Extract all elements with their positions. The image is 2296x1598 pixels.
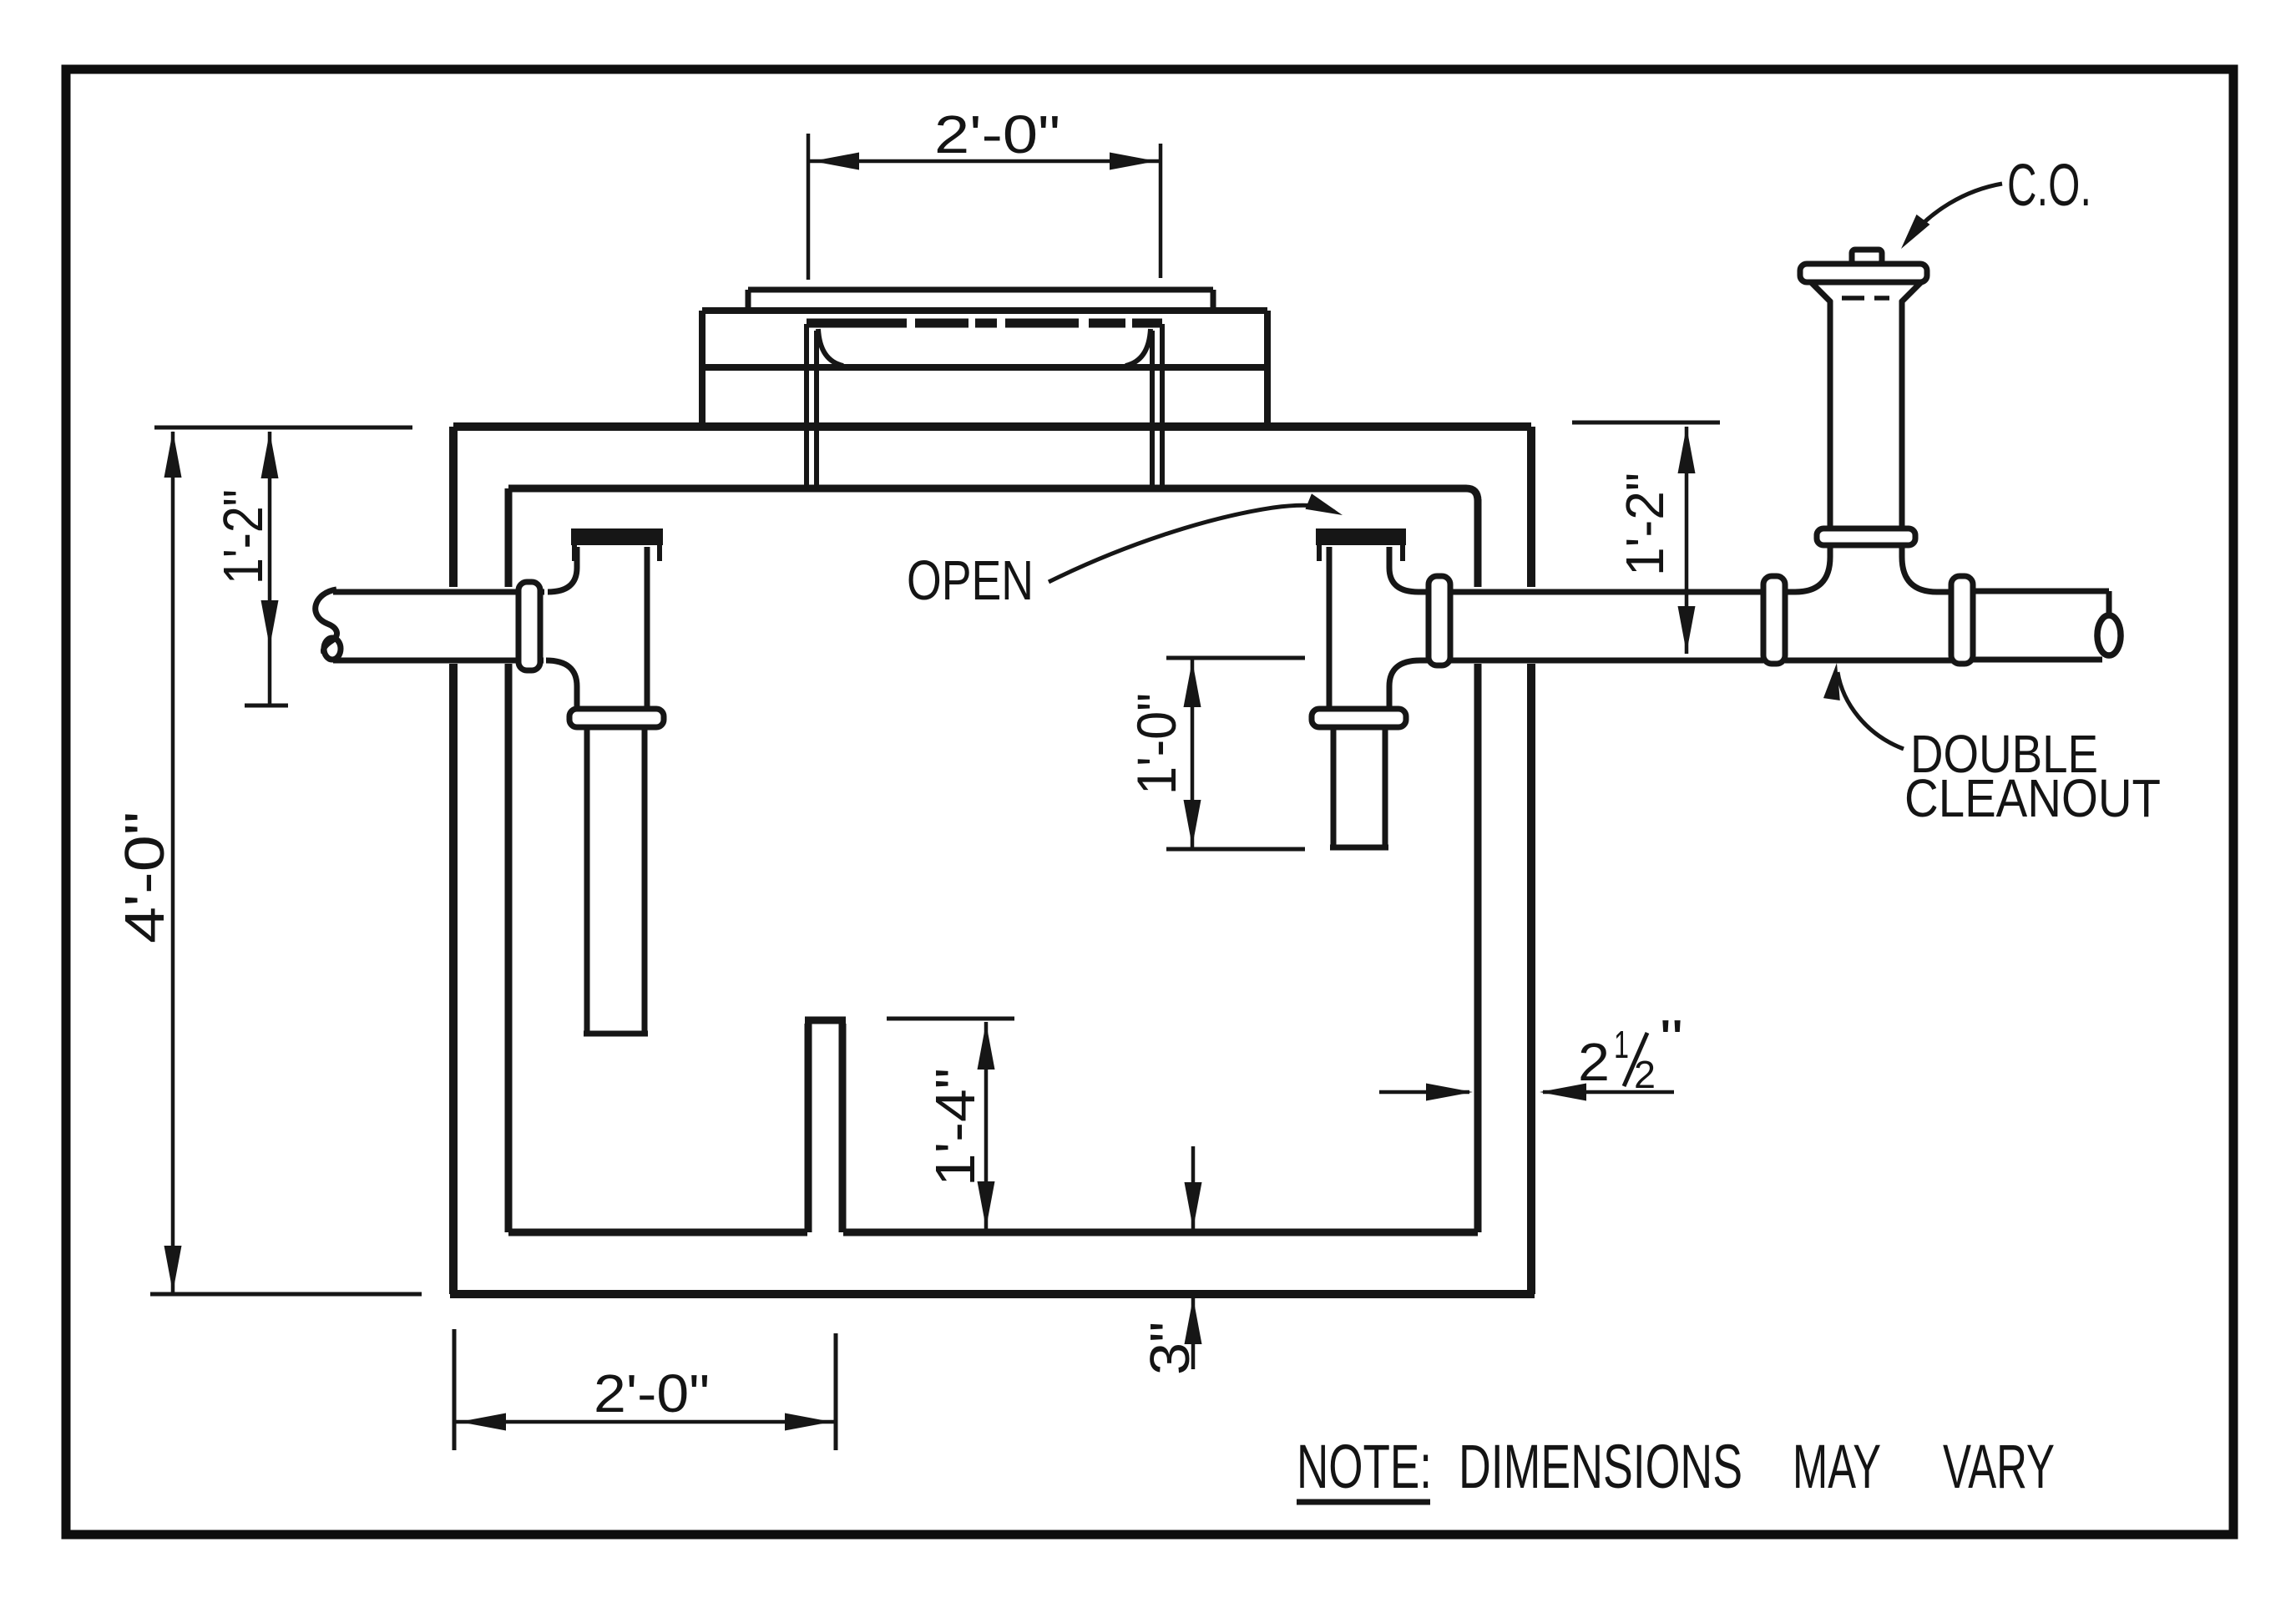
dimension 1'-4": arrowheads [978,1023,995,1070]
svg-text:NOTE:: NOTE: [1297,1432,1432,1501]
inlet tee lower coupling [569,709,664,727]
cleanout riser coupling [1817,528,1915,545]
dimension 1'-2" right: top tick [1572,421,1720,425]
svg-text:1'-2": 1'-2" [1615,473,1675,576]
inlet tee hub end ticks [574,545,660,561]
tank inner top wall [508,488,1478,501]
svg-text:1'-4": 1'-4" [924,1068,987,1186]
dimension 2'-0" bottom: extension lines [454,1329,836,1450]
outlet tee barrel and fillets [1329,547,1420,709]
cleanout right pipe collar [1951,576,1973,664]
inlet tee top hub [571,528,663,545]
dimension 1'-2" right: dimension line [1685,427,1689,654]
tank outer bottom wall [450,1290,1535,1298]
tank outer left wall [449,427,458,1294]
svg-text:C.O.: C.O. [2007,153,2091,219]
dimension 2'-0" top: arrowheads [812,153,859,170]
outlet pipe bottom edge [1420,658,1763,664]
inlet pipe break loop [324,638,341,660]
svg-text:OPEN: OPEN [907,549,1034,612]
dimension 1'-0": dimension line [1191,660,1195,847]
cleanout cap plate [1800,264,1927,282]
svg-text:": " [1660,1009,1683,1069]
dimension 3": lower arrow line [1191,1297,1196,1369]
svg-text:2: 2 [1634,1053,1656,1096]
baffle wall [805,1020,846,1232]
inlet pipe top edge [333,589,544,595]
dimension 2'-0" bottom: arrowheads [459,1413,506,1431]
svg-text:1'-2": 1'-2" [212,489,275,584]
inlet pipe bottom edge [333,658,544,664]
cleanout riser flare [1810,281,1922,302]
outlet tee hub end ticks [1319,545,1403,561]
svg-text:1: 1 [1614,1023,1629,1066]
tank inner bottom wall [508,1229,1478,1236]
manhole neck right [1152,324,1162,487]
lid slab mid line [702,364,1267,371]
tank inner right wall [1474,499,1482,1232]
svg-text:DIMENSIONS: DIMENSIONS [1459,1432,1742,1501]
leader DOUBLE CLEANOUT arrow [1838,672,1904,749]
manhole neck left [807,324,817,487]
svg-text:3": 3" [1139,1322,1201,1375]
tank inner left wall [505,488,513,1232]
tank outer top wall [453,422,1531,431]
inlet tee barrel and fillets [546,547,647,709]
cleanout left pipe collar [1763,576,1785,664]
svg-text:VARY: VARY [1943,1432,2055,1501]
dimension 1'-2" right: arrowheads [1678,427,1696,473]
dimension 1'-2" left: arrowheads [261,432,279,478]
tank outer right wall [1527,427,1535,1294]
dimension 1'-4": top tick [887,1017,1014,1021]
outlet tee lower coupling [1312,709,1406,727]
dimension 1'-2" left: top tick [154,426,412,430]
cleanout cap knob [1852,250,1882,264]
outfall pipe bottom edge [1973,657,2102,663]
dimension 3": upper arrow line [1191,1146,1196,1229]
lid slab [702,311,1267,424]
svg-text:4'-0": 4'-0" [114,812,176,943]
outlet down pipe bottom cap [1330,845,1388,851]
outfall pipe end curl [2106,591,2112,614]
dimension 1'-0": top tick [1166,656,1305,660]
outfall pipe top edge [1973,589,2109,594]
manhole cover corner fillets [818,329,1151,366]
dimension 1'-0": arrowheads [1184,660,1201,707]
dimension 2 1/2": left leader with arrow [1379,1090,1469,1095]
svg-text:2'-0": 2'-0" [934,104,1060,164]
svg-text:2: 2 [1578,1032,1610,1092]
leader OPEN arrow [1049,505,1334,582]
outlet pipe top edge [1419,589,1763,595]
svg-text:1'-0": 1'-0" [1125,693,1187,795]
svg-text:CLEANOUT: CLEANOUT [1904,768,2161,828]
outlet down pipe [1333,727,1385,845]
dimension 4'-0": dimension line [171,432,175,1292]
inlet down pipe [587,727,645,1032]
lid top plate [748,290,1213,309]
dimension 1'-4": dimension line [984,1022,989,1229]
dimension 1'-2" left: bottom tick [245,704,288,708]
cleanout tee shoulders [1785,547,1955,592]
inlet pipe wall collar [518,582,540,670]
dimension 2'-0" top: dimension line [808,159,1161,164]
cleanout flare dashes [1842,296,1889,301]
manhole cover dashed edge [807,319,1162,328]
cleanout pipe bottom edge under tee [1785,658,1953,664]
dimension 4'-0": arrowheads [164,431,182,478]
outlet pipe wall collar [1429,576,1450,665]
dimension 1'-0": bottom tick [1166,847,1305,852]
dimension 4'-0": bottom tick [150,1292,422,1297]
svg-text:MAY: MAY [1793,1432,1881,1501]
note underline [1297,1499,1430,1505]
inlet pipe break symbol [316,589,337,653]
leader C.O. arrow [1910,184,2002,237]
cleanout riser [1830,301,1902,528]
dimension 1'-2" left: dimension line [268,432,272,705]
dimension 2 1/2": right leader with arrow [1543,1090,1674,1095]
dimension 2'-0" bottom: dimension line [454,1420,836,1424]
outlet tee top hub [1316,528,1406,545]
svg-text:2'-0": 2'-0" [594,1363,710,1424]
inlet down pipe bottom cap [584,1031,648,1037]
dimension 2'-0" top: extension lines [808,134,1161,280]
